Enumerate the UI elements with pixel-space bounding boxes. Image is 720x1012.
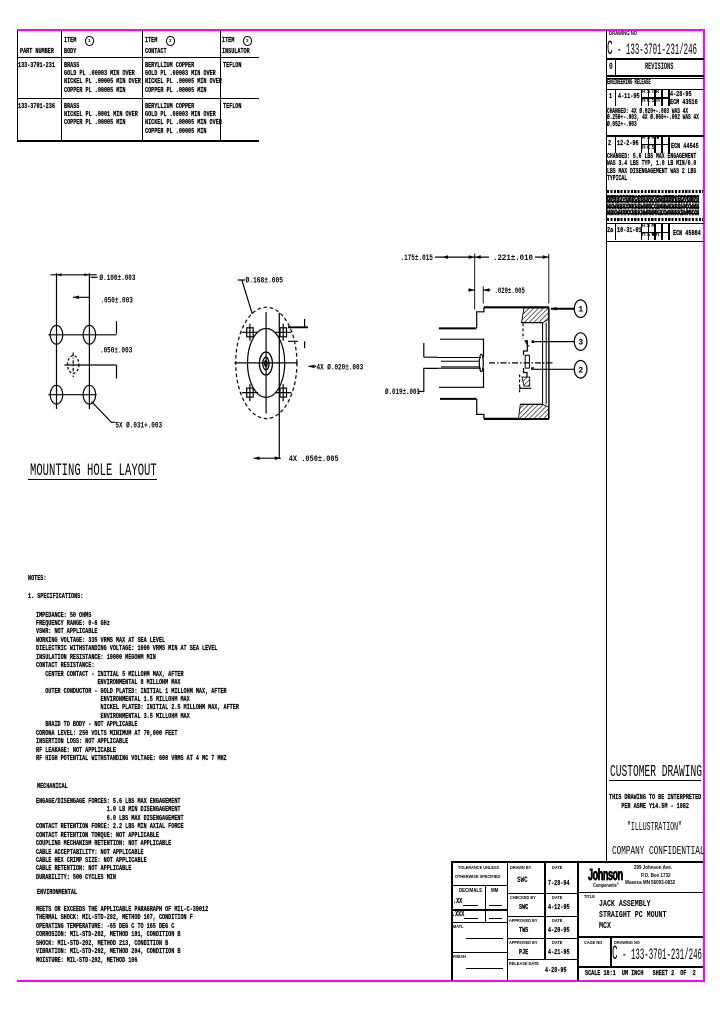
svg-text:.050±.003: .050±.003 bbox=[101, 296, 133, 305]
svg-text:Ø.019±.001: Ø.019±.001 bbox=[385, 387, 420, 397]
svg-text:1: 1 bbox=[578, 306, 583, 315]
svg-text:.050±.003: .050±.003 bbox=[100, 347, 132, 356]
svg-text:.221±.010: .221±.010 bbox=[493, 254, 533, 263]
svg-text:3: 3 bbox=[578, 339, 583, 348]
svg-text:.175±.015: .175±.015 bbox=[401, 254, 433, 263]
svg-text:2: 2 bbox=[578, 366, 583, 375]
svg-text:4X Ø.020±.003: 4X Ø.020±.003 bbox=[317, 362, 364, 372]
svg-text:.020±.005: .020±.005 bbox=[495, 287, 525, 296]
svg-text:Ø.100±.003: Ø.100±.003 bbox=[100, 273, 136, 283]
svg-text:Ø.168±.005: Ø.168±.005 bbox=[246, 275, 284, 285]
svg-text:4X .050±.005: 4X .050±.005 bbox=[289, 455, 339, 464]
svg-text:5X Ø.031+.003: 5X Ø.031+.003 bbox=[115, 421, 162, 431]
